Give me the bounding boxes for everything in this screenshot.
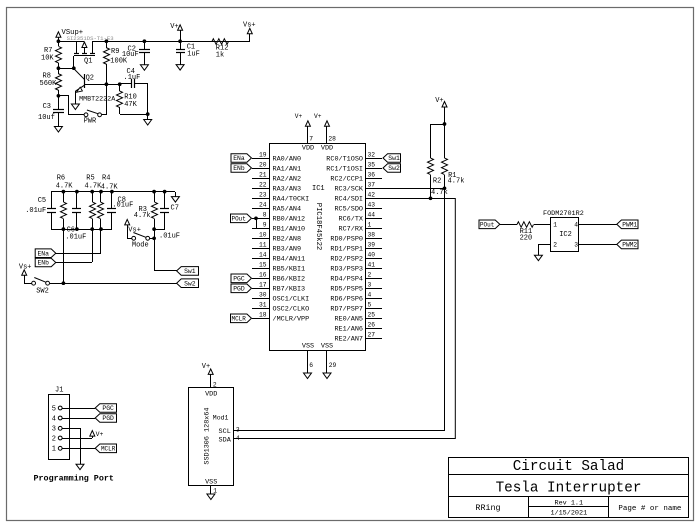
svg-text:3: 3	[368, 282, 372, 289]
svg-text:RA5/AN4: RA5/AN4	[273, 205, 302, 213]
svg-text:V+: V+	[170, 23, 178, 31]
svg-text:4.7K: 4.7K	[101, 183, 119, 191]
svg-text:PGD: PGD	[233, 286, 245, 293]
svg-text:21: 21	[259, 172, 267, 179]
svg-text:25: 25	[368, 312, 376, 319]
svg-text:5: 5	[52, 405, 56, 413]
svg-text:19: 19	[259, 152, 267, 159]
svg-text:4: 4	[52, 415, 56, 423]
svg-text:RD1/PSP1: RD1/PSP1	[330, 245, 363, 253]
svg-text:Q1: Q1	[84, 57, 92, 65]
svg-text:11: 11	[259, 242, 267, 249]
svg-text:IC2: IC2	[559, 231, 572, 239]
svg-text:OSC2/CLKO: OSC2/CLKO	[273, 305, 310, 313]
svg-text:42: 42	[368, 192, 376, 199]
svg-text:32: 32	[368, 152, 376, 159]
svg-text:37: 37	[368, 182, 376, 189]
svg-text:1: 1	[52, 446, 56, 454]
svg-text:3: 3	[574, 242, 578, 249]
svg-text:V+: V+	[435, 97, 443, 105]
svg-text:RB1/AN10: RB1/AN10	[273, 225, 306, 233]
svg-text:RD4/PSP4: RD4/PSP4	[330, 275, 363, 283]
svg-text:PWR: PWR	[84, 117, 97, 125]
svg-text:4: 4	[236, 435, 240, 442]
svg-text:RB4/AN11: RB4/AN11	[273, 255, 306, 263]
svg-text:.01uF: .01uF	[159, 233, 180, 241]
svg-text:SW2: SW2	[36, 287, 49, 295]
svg-text:ENa: ENa	[233, 155, 245, 162]
svg-text:FODM2701R2: FODM2701R2	[543, 210, 584, 218]
svg-text:R2: R2	[433, 177, 441, 185]
svg-text:RA0/AN0: RA0/AN0	[273, 155, 302, 163]
svg-text:.01uF: .01uF	[65, 234, 86, 242]
svg-text:RD7/PSP7: RD7/PSP7	[330, 305, 363, 313]
svg-text:PIC18F45k22: PIC18F45k22	[314, 203, 322, 250]
svg-text:V+: V+	[202, 363, 210, 371]
svg-text:VDD: VDD	[321, 145, 333, 153]
svg-text:ENa: ENa	[37, 250, 49, 257]
svg-text:40: 40	[368, 252, 376, 259]
svg-text:VSS: VSS	[302, 343, 314, 351]
svg-text:RC5/SDO: RC5/SDO	[334, 205, 363, 213]
svg-text:C7: C7	[171, 204, 179, 212]
svg-text:RRing: RRing	[475, 503, 500, 513]
svg-text:4.7K: 4.7K	[56, 183, 74, 191]
svg-text:1uF: 1uF	[187, 51, 200, 59]
svg-text:RD6/PSP6: RD6/PSP6	[330, 295, 363, 303]
svg-text:ENb: ENb	[37, 260, 49, 267]
svg-text:3: 3	[52, 426, 56, 434]
svg-text:4.7k: 4.7k	[134, 212, 151, 220]
svg-text:RE0/AN5: RE0/AN5	[334, 315, 363, 323]
svg-text:26: 26	[368, 322, 376, 329]
svg-text:10uF: 10uF	[122, 51, 139, 59]
svg-text:RB5/KBI1: RB5/KBI1	[273, 265, 306, 273]
svg-text:R6: R6	[57, 175, 65, 183]
svg-text:V+: V+	[96, 431, 104, 438]
svg-text:Sw2: Sw2	[388, 165, 400, 172]
svg-text:RC3/SCK: RC3/SCK	[334, 185, 363, 193]
svg-text:C5: C5	[38, 197, 46, 205]
svg-text:RB7/KBI3: RB7/KBI3	[273, 285, 306, 293]
svg-text:4: 4	[368, 292, 372, 299]
svg-text:38: 38	[368, 232, 376, 239]
svg-text:8: 8	[263, 212, 267, 219]
svg-text:1: 1	[213, 487, 217, 494]
svg-text:10K: 10K	[41, 55, 54, 63]
svg-text:Sw1: Sw1	[184, 268, 196, 275]
svg-text:R5: R5	[86, 175, 94, 183]
svg-text:Page # or name: Page # or name	[618, 505, 681, 513]
svg-text:39: 39	[368, 242, 376, 249]
svg-text:41: 41	[368, 262, 376, 269]
svg-text:14: 14	[259, 252, 267, 259]
svg-text:Rev 1.1: Rev 1.1	[555, 500, 584, 508]
svg-text:VDD: VDD	[205, 390, 217, 398]
svg-text:44: 44	[368, 212, 376, 219]
svg-text:RC0/T1OSO: RC0/T1OSO	[326, 155, 363, 163]
svg-text:4: 4	[574, 221, 578, 228]
svg-text:22: 22	[259, 182, 267, 189]
svg-text:SSD1306 128x64: SSD1306 128x64	[204, 407, 212, 464]
svg-text:Sw2: Sw2	[184, 280, 196, 287]
svg-text:POut: POut	[231, 216, 245, 223]
svg-text:ENb: ENb	[233, 165, 245, 172]
svg-text:VSS: VSS	[321, 343, 333, 351]
svg-text:43: 43	[368, 202, 376, 209]
svg-text:4.7k: 4.7k	[431, 189, 448, 197]
svg-text:27: 27	[368, 332, 376, 339]
svg-text:R4: R4	[102, 175, 110, 183]
svg-text:2: 2	[368, 272, 372, 279]
svg-text:R9: R9	[111, 48, 119, 56]
svg-text:Tesla Interrupter: Tesla Interrupter	[496, 481, 642, 497]
svg-text:1: 1	[553, 221, 557, 228]
svg-text:2: 2	[52, 435, 56, 443]
svg-text:OSC1/CLKI: OSC1/CLKI	[273, 295, 310, 303]
svg-text:V+: V+	[295, 113, 303, 120]
svg-text:4.7k: 4.7k	[448, 177, 465, 185]
svg-text:RB3/AN9: RB3/AN9	[273, 245, 302, 253]
svg-text:RD0/PSP0: RD0/PSP0	[330, 235, 363, 243]
svg-text:10uf: 10uf	[38, 114, 55, 122]
svg-text:PWM2: PWM2	[622, 242, 637, 249]
svg-text:17: 17	[259, 282, 267, 289]
svg-text:RC1/T1OSI: RC1/T1OSI	[326, 165, 363, 173]
svg-text:PGC: PGC	[102, 405, 114, 412]
svg-text:Mode: Mode	[132, 241, 149, 249]
svg-text:Vs+: Vs+	[128, 227, 141, 235]
svg-text:RD3/PSP3: RD3/PSP3	[330, 265, 363, 273]
svg-text:6: 6	[309, 362, 313, 369]
svg-text:7: 7	[309, 135, 313, 142]
svg-text:Programming Port: Programming Port	[34, 473, 114, 483]
svg-text:Vs+: Vs+	[243, 21, 256, 29]
svg-text:PGD: PGD	[102, 415, 114, 422]
svg-text:3: 3	[236, 427, 240, 434]
svg-text:VDD: VDD	[302, 145, 314, 153]
svg-text:20: 20	[259, 162, 267, 169]
svg-text:1: 1	[368, 222, 372, 229]
svg-text:560K: 560K	[40, 80, 58, 88]
svg-text:Circuit Salad: Circuit Salad	[513, 459, 625, 475]
svg-text:1k: 1k	[216, 51, 224, 59]
svg-text:Sw1: Sw1	[388, 155, 400, 162]
svg-text:RA1/AN1: RA1/AN1	[273, 165, 302, 173]
svg-text:RC4/SDI: RC4/SDI	[334, 195, 363, 203]
svg-text:V+: V+	[314, 113, 322, 120]
svg-text:RD2/PSP2: RD2/PSP2	[330, 255, 363, 263]
svg-text:220: 220	[520, 234, 533, 242]
svg-text:RC6/TX: RC6/TX	[339, 215, 363, 223]
svg-text:Q2: Q2	[86, 74, 94, 82]
svg-text:.01uF: .01uF	[25, 207, 46, 215]
svg-text:16: 16	[259, 272, 267, 279]
svg-text:RC2/CCP1: RC2/CCP1	[330, 175, 363, 183]
svg-text:47K: 47K	[124, 101, 137, 109]
svg-text:MCLR: MCLR	[101, 446, 116, 453]
svg-text:RB0/AN12: RB0/AN12	[273, 215, 306, 223]
svg-text:SCL: SCL	[219, 428, 231, 436]
svg-text:/MCLR/VPP: /MCLR/VPP	[273, 315, 310, 323]
svg-text:36: 36	[368, 172, 376, 179]
svg-text:C3: C3	[43, 103, 51, 111]
svg-text:RA2/AN2: RA2/AN2	[273, 175, 302, 183]
svg-text:2: 2	[553, 242, 557, 249]
svg-text:.1uF: .1uF	[124, 74, 141, 82]
svg-text:Mod1: Mod1	[213, 415, 229, 422]
svg-text:RB2/AN8: RB2/AN8	[273, 235, 302, 243]
svg-text:RE1/AN6: RE1/AN6	[334, 325, 363, 333]
svg-text:MCLR: MCLR	[231, 316, 246, 323]
svg-text:SDA: SDA	[219, 437, 232, 445]
svg-text:23: 23	[259, 192, 267, 199]
svg-text:29: 29	[329, 362, 337, 369]
svg-text:J1: J1	[55, 387, 63, 395]
svg-text:IC1: IC1	[312, 185, 325, 193]
svg-text:RE2/AN7: RE2/AN7	[334, 335, 363, 343]
svg-text:31: 31	[259, 302, 267, 309]
svg-text:24: 24	[259, 202, 267, 209]
svg-text:PGC: PGC	[233, 276, 245, 283]
svg-text:4.7K: 4.7K	[85, 183, 103, 191]
svg-text:RA4/T0CKI: RA4/T0CKI	[273, 195, 310, 203]
svg-text:15: 15	[259, 262, 267, 269]
svg-text:Vs+: Vs+	[19, 263, 32, 271]
svg-text:RB6/KBI2: RB6/KBI2	[273, 275, 306, 283]
svg-text:5: 5	[368, 302, 372, 309]
svg-text:18: 18	[259, 312, 267, 319]
svg-text:POut: POut	[480, 222, 494, 229]
svg-text:35: 35	[368, 162, 376, 169]
svg-text:9: 9	[263, 222, 267, 229]
svg-text:PWM1: PWM1	[622, 222, 637, 229]
svg-text:30: 30	[259, 292, 267, 299]
svg-text:MMBT2222A: MMBT2222A	[79, 95, 116, 103]
svg-text:1/15/2021: 1/15/2021	[550, 509, 587, 517]
svg-text:10: 10	[259, 232, 267, 239]
svg-text:VSS: VSS	[205, 478, 217, 486]
svg-text:.01uF: .01uF	[112, 202, 133, 210]
svg-text:RA3/AN3: RA3/AN3	[273, 185, 302, 193]
svg-text:RD5/PSP5: RD5/PSP5	[330, 285, 363, 293]
svg-text:RC7/RX: RC7/RX	[339, 225, 363, 233]
svg-text:28: 28	[328, 135, 336, 142]
